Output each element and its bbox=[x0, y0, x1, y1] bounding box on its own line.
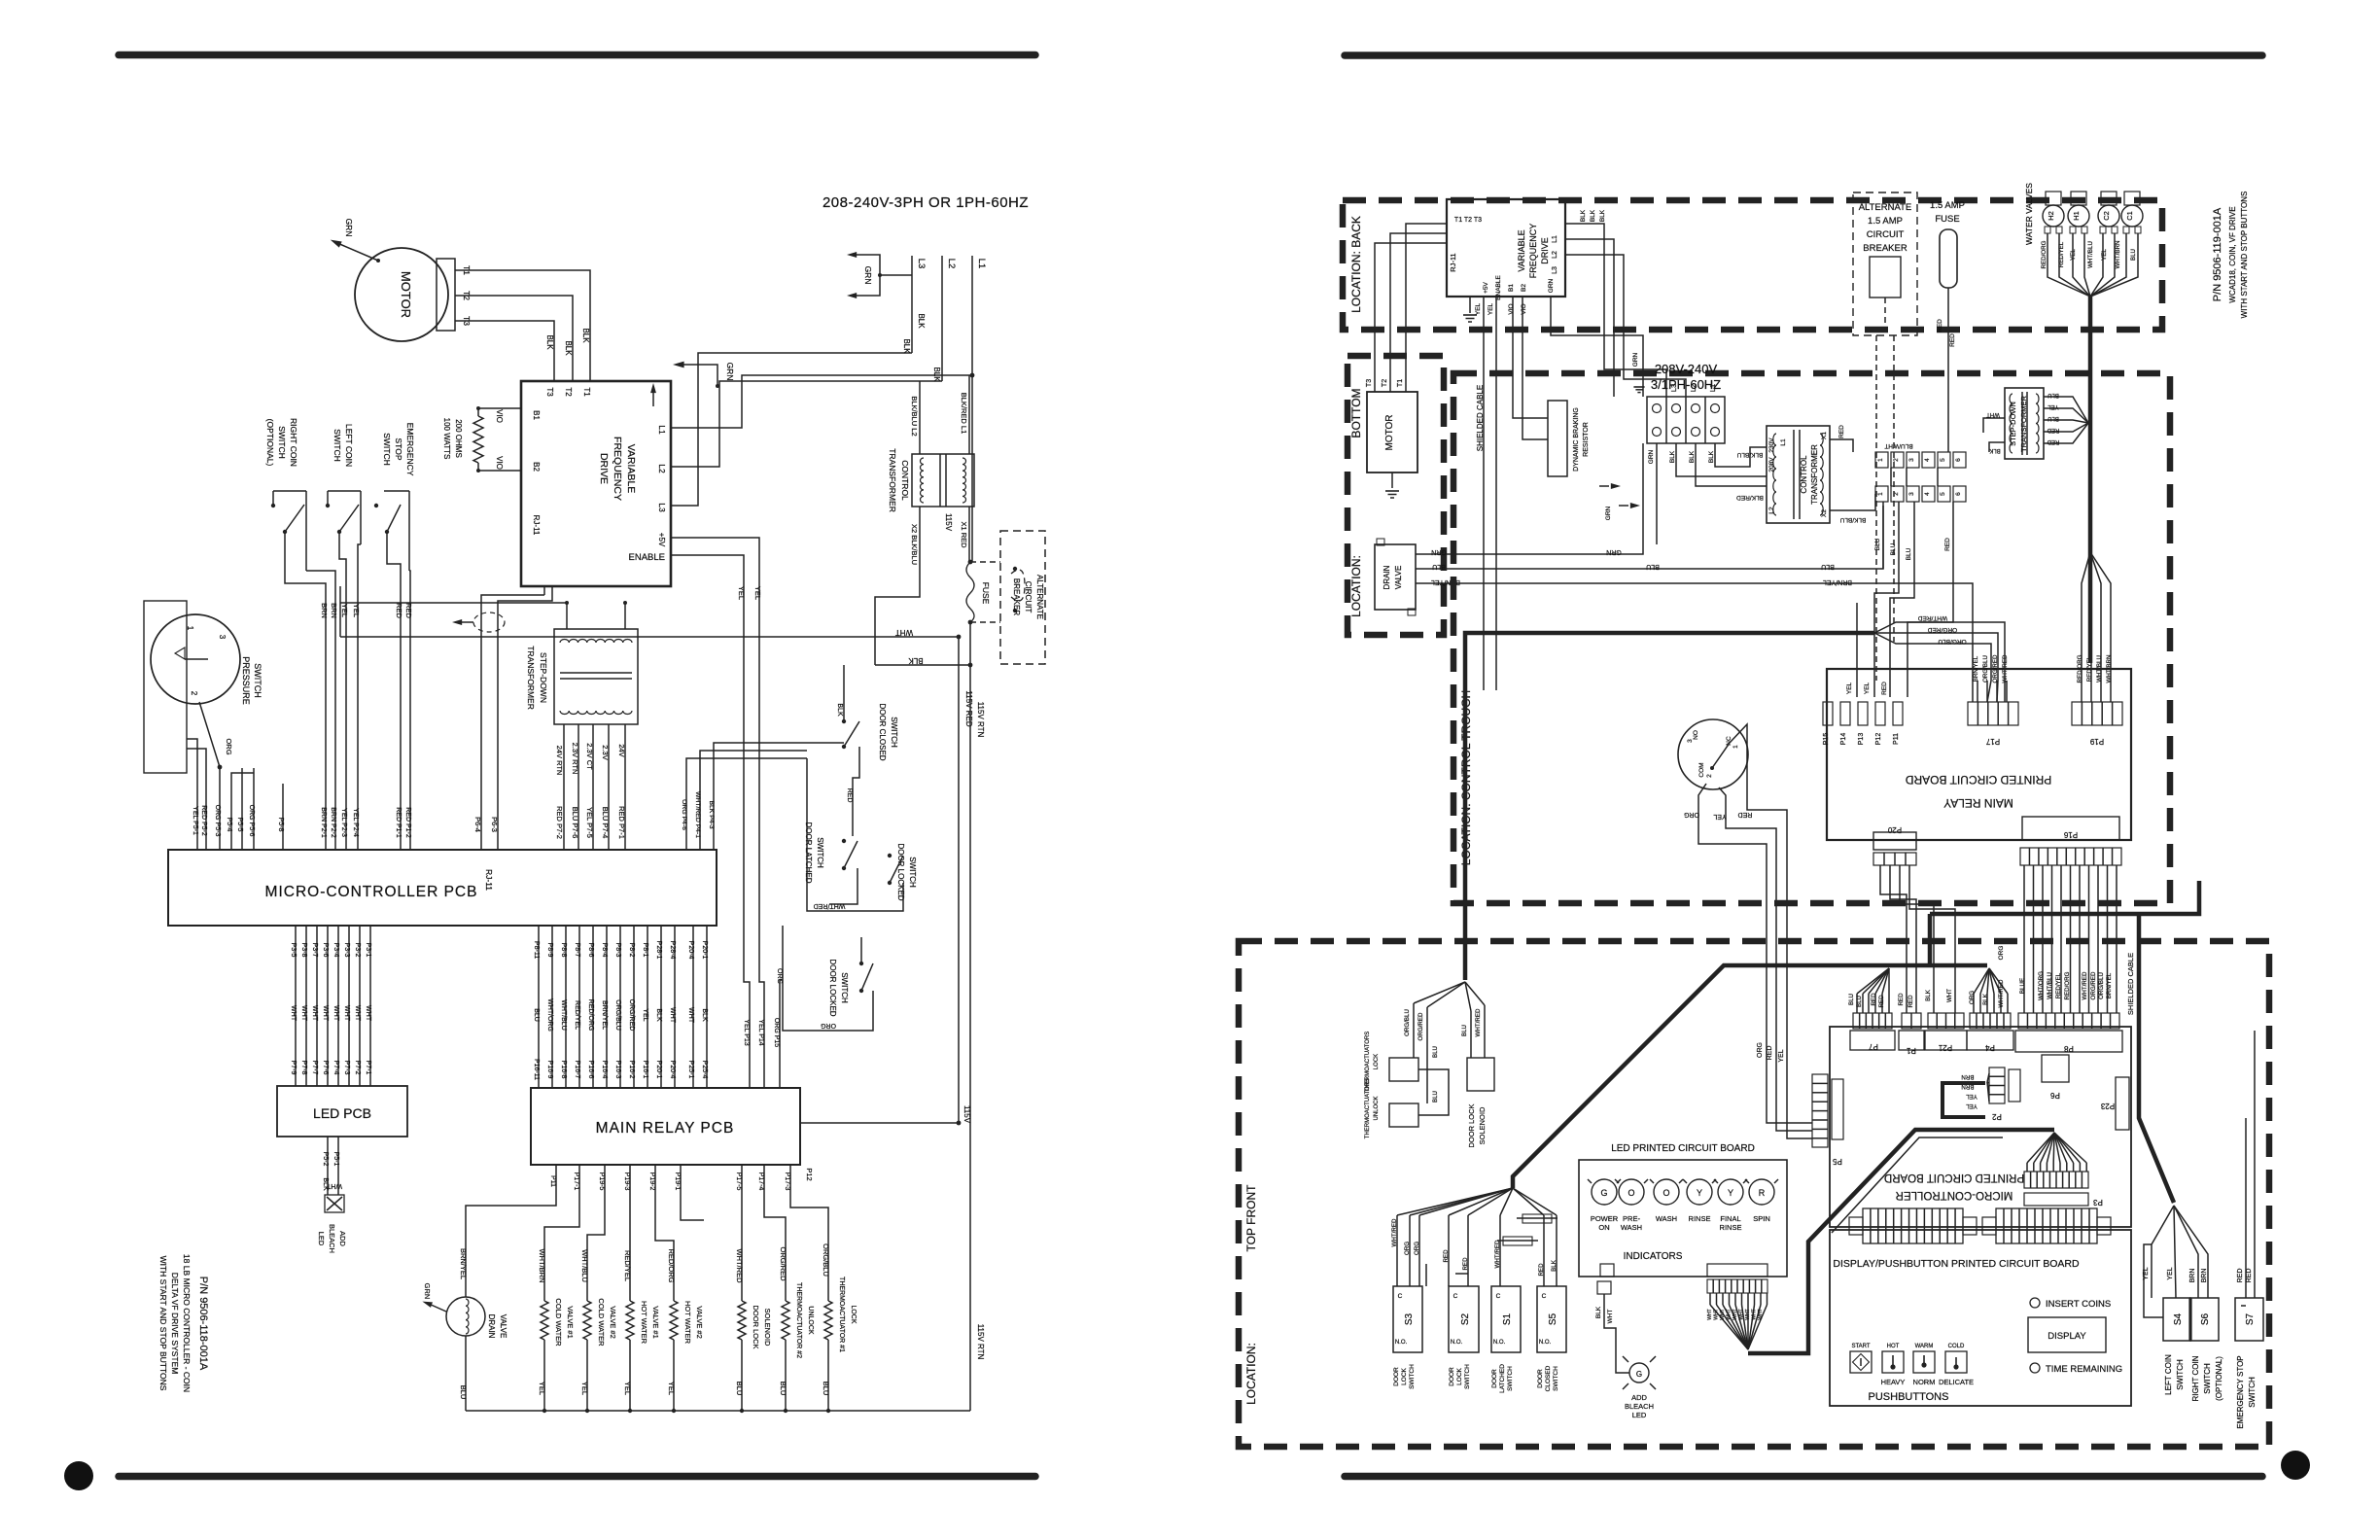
svg-text:WHT/BLU: WHT/BLU bbox=[560, 999, 567, 1031]
thick trunk below main relay bbox=[1928, 914, 1933, 965]
svg-text:BLU: BLU bbox=[779, 1382, 787, 1396]
jumper links bbox=[1522, 1214, 1552, 1223]
svg-text:BLK: BLK bbox=[1982, 993, 1989, 1005]
svg-text:YEL P7-5: YEL P7-5 bbox=[585, 807, 594, 838]
svg-text:FINAL: FINAL bbox=[1720, 1214, 1740, 1223]
svg-text:BLU: BLU bbox=[735, 1382, 744, 1396]
thermoactuators unlock bbox=[1389, 1103, 1418, 1127]
micro controller PCB right page bbox=[1830, 1027, 2131, 1227]
svg-text:1: 1 bbox=[1732, 745, 1739, 749]
svg-text:WHT/BLU: WHT/BLU bbox=[2047, 972, 2053, 999]
svg-text:MAIN RELAY: MAIN RELAY bbox=[1943, 796, 2013, 810]
svg-text:GRN: GRN bbox=[1548, 278, 1555, 293]
svg-text:N.O.: N.O. bbox=[1395, 1340, 1408, 1346]
svg-text:S5: S5 bbox=[1548, 1312, 1558, 1325]
water valve wires converge bbox=[2047, 233, 2090, 297]
drain valve wire BLU bbox=[1416, 506, 1883, 569]
svg-text:P5-4: P5-4 bbox=[226, 818, 232, 832]
svg-text:TIME REMAINING: TIME REMAINING bbox=[2046, 1364, 2122, 1375]
alternate circuit breaker right page bbox=[1853, 192, 1917, 335]
svg-text:RED: RED bbox=[2047, 427, 2059, 433]
svg-text:BLU: BLU bbox=[459, 1385, 468, 1400]
svg-text:P7-3: P7-3 bbox=[343, 1061, 350, 1075]
wire L2 to VFD bbox=[671, 381, 942, 467]
svg-text:YEL: YEL bbox=[1475, 302, 1482, 315]
svg-text:FUSE: FUSE bbox=[1935, 214, 1959, 225]
display pushbutton PCB bbox=[1830, 1230, 2131, 1406]
pressure switch wires ORG YEL RED bbox=[1698, 784, 1812, 1123]
svg-text:WHT: WHT bbox=[1752, 1309, 1758, 1319]
svg-text:L2: L2 bbox=[657, 464, 667, 473]
svg-text:200 OHMS: 200 OHMS bbox=[454, 419, 463, 458]
svg-text:CONTROL: CONTROL bbox=[1800, 455, 1808, 494]
svg-text:ENABLE: ENABLE bbox=[629, 552, 666, 563]
P3 fan bbox=[2027, 1133, 2054, 1163]
svg-text:P28-1: P28-1 bbox=[655, 941, 662, 960]
svg-text:BLK: BLK bbox=[581, 328, 590, 343]
terminal block L3 L2 L1 bbox=[1647, 397, 1725, 443]
svg-text:WHT/BLU: WHT/BLU bbox=[2087, 241, 2094, 268]
svg-text:RED: RED bbox=[2237, 1269, 2244, 1283]
svg-text:P21: P21 bbox=[1938, 1043, 1952, 1052]
svg-text:GRN: GRN bbox=[725, 363, 735, 381]
left coin switch S4 bbox=[2163, 1298, 2190, 1341]
svg-text:WITH START AND STOP BUTTONS: WITH START AND STOP BUTTONS bbox=[158, 1256, 168, 1391]
svg-text:P19-3: P19-3 bbox=[623, 1172, 630, 1191]
right coin switch S6 bbox=[2190, 1298, 2219, 1341]
svg-text:RED: RED bbox=[1881, 682, 1888, 695]
svg-text:BLU: BLU bbox=[533, 1008, 540, 1022]
svg-text:N.O.: N.O. bbox=[1451, 1340, 1463, 1346]
svg-text:MOTOR: MOTOR bbox=[399, 271, 413, 318]
svg-text:RESISTOR: RESISTOR bbox=[1583, 422, 1590, 457]
svg-text:DRAIN: DRAIN bbox=[487, 1314, 496, 1339]
drain valve wire BRN/YEL bbox=[1416, 583, 1973, 702]
svg-text:P12: P12 bbox=[1875, 733, 1882, 746]
svg-text:TRANSFORMER: TRANSFORMER bbox=[2019, 395, 2028, 452]
svg-text:SWITCH: SWITCH bbox=[816, 837, 824, 868]
svg-text:HOT: HOT bbox=[1887, 1344, 1900, 1349]
thermoactuator fan wires bbox=[1414, 982, 1465, 1003]
svg-text:P16-4: P16-4 bbox=[601, 1061, 608, 1079]
svg-text:WHT/RED: WHT/RED bbox=[1494, 1240, 1501, 1268]
svg-text:RED: RED bbox=[1949, 333, 1956, 347]
dynamic braking resistor bbox=[1548, 401, 1567, 476]
svg-text:BLU: BLU bbox=[1432, 1046, 1439, 1058]
svg-text:YEL: YEL bbox=[2047, 403, 2059, 409]
main relay PCB bbox=[531, 1088, 800, 1165]
svg-text:C: C bbox=[1542, 1293, 1547, 1300]
svg-text:230V: 230V bbox=[1768, 437, 1775, 453]
svg-text:P19-5: P19-5 bbox=[598, 1172, 605, 1191]
svg-text:WHT: WHT bbox=[669, 1007, 676, 1024]
svg-text:P16-2: P16-2 bbox=[628, 1061, 635, 1079]
svg-text:P/N 9506-118-001A: P/N 9506-118-001A bbox=[197, 1277, 209, 1371]
svg-text:1: 1 bbox=[1877, 492, 1884, 496]
thick cable branch to door switches bbox=[1513, 965, 1930, 1188]
svg-text:P7-1: P7-1 bbox=[365, 1061, 371, 1075]
svg-text:4: 4 bbox=[1924, 492, 1931, 496]
wire transformer primary L2 BLK/BLU bbox=[919, 381, 921, 454]
location top front dashed box bbox=[1239, 941, 2269, 1447]
terminal strip lower wires BLU bbox=[1882, 502, 1884, 569]
svg-text:ENABLE: ENABLE bbox=[1495, 275, 1502, 300]
svg-text:LEFT COIN: LEFT COIN bbox=[344, 424, 354, 467]
location back dashed box bbox=[1343, 200, 2162, 330]
svg-text:DISPLAY/PUSHBUTTON PRINTED C: DISPLAY/PUSHBUTTON PRINTED CIRCUIT BOARD bbox=[1833, 1258, 2080, 1270]
svg-text:RED: RED bbox=[1838, 425, 1845, 438]
svg-text:G: G bbox=[1636, 1370, 1642, 1379]
svg-text:WHT: WHT bbox=[1745, 1309, 1751, 1319]
svg-text:BREAKER: BREAKER bbox=[1863, 243, 1907, 254]
svg-text:SWITCH: SWITCH bbox=[2203, 1363, 2212, 1394]
svg-text:BRN/YEL: BRN/YEL bbox=[459, 1248, 468, 1279]
svg-text:P15: P15 bbox=[1823, 733, 1830, 746]
supply earth GRN bracket bbox=[856, 255, 880, 296]
svg-text:P8-1: P8-1 bbox=[642, 943, 648, 958]
svg-text:P20-4: P20-4 bbox=[669, 1061, 676, 1079]
svg-text:P8-3: P8-3 bbox=[614, 943, 621, 958]
svg-text:DOOR LOCKED: DOOR LOCKED bbox=[828, 959, 837, 1016]
svg-text:COLD WATER: COLD WATER bbox=[554, 1298, 563, 1347]
svg-text:C: C bbox=[1496, 1293, 1501, 1300]
svg-text:YEL P14: YEL P14 bbox=[757, 1019, 764, 1045]
svg-text:RED: RED bbox=[1462, 1257, 1469, 1271]
svg-text:P8-8: P8-8 bbox=[560, 943, 567, 958]
svg-text:RED P5-2: RED P5-2 bbox=[200, 805, 207, 836]
svg-text:24V RTN: 24V RTN bbox=[555, 746, 564, 776]
svg-text:RED: RED bbox=[1538, 1263, 1545, 1277]
svg-text:RED P1-1: RED P1-1 bbox=[395, 807, 402, 838]
svg-text:1.5 AMP: 1.5 AMP bbox=[1868, 216, 1903, 227]
svg-text:RJ-11: RJ-11 bbox=[484, 869, 494, 891]
svg-text:RIGHT COIN: RIGHT COIN bbox=[2191, 1355, 2200, 1401]
svg-text:RED/ORG: RED/ORG bbox=[667, 1248, 676, 1282]
svg-text:DOOR: DOOR bbox=[1491, 1369, 1498, 1388]
connector P6 bbox=[2042, 1055, 2069, 1082]
svg-text:YEL: YEL bbox=[1846, 682, 1853, 694]
svg-text:YEL: YEL bbox=[753, 586, 762, 600]
svg-text:BLK: BLK bbox=[932, 367, 941, 382]
svg-text:P6-4: P6-4 bbox=[473, 817, 482, 832]
svg-text:WHT: WHT bbox=[354, 1005, 361, 1022]
stepdown output wires to cable bbox=[2044, 397, 2088, 423]
svg-text:P17: P17 bbox=[1985, 737, 2000, 746]
svg-text:SOLENOID: SOLENOID bbox=[763, 1309, 772, 1347]
svg-text:ORG/BLU: ORG/BLU bbox=[614, 999, 621, 1031]
svg-text:SPIN: SPIN bbox=[1753, 1214, 1770, 1223]
svg-text:LED PRINTED CIRCUIT BOARD: LED PRINTED CIRCUIT BOARD bbox=[1611, 1143, 1755, 1154]
svg-text:O: O bbox=[1662, 1188, 1669, 1198]
wire L3 to VFD bbox=[671, 353, 912, 506]
svg-text:GRN: GRN bbox=[1606, 548, 1622, 555]
connector P1 bbox=[1902, 1013, 1921, 1029]
svg-text:RED P7-2: RED P7-2 bbox=[555, 806, 564, 839]
svg-text:1: 1 bbox=[1877, 458, 1884, 462]
door closed switch S5 bbox=[1537, 1286, 1566, 1352]
wire parallel to LED cable bbox=[1832, 1137, 2003, 1233]
svg-text:P8-11: P8-11 bbox=[533, 941, 540, 959]
svg-text:HOT WATER: HOT WATER bbox=[683, 1301, 692, 1345]
svg-text:PRESSURE: PRESSURE bbox=[241, 656, 251, 705]
svg-text:DOOR LOCK: DOOR LOCK bbox=[752, 1305, 760, 1348]
svg-text:FREQUENCY: FREQUENCY bbox=[1528, 224, 1538, 279]
svg-text:WHT: WHT bbox=[332, 1005, 339, 1022]
svg-text:YEL: YEL bbox=[580, 1382, 589, 1395]
svg-text:P19: P19 bbox=[2089, 737, 2104, 746]
svg-text:P7-9: P7-9 bbox=[290, 1061, 297, 1075]
svg-text:L3: L3 bbox=[657, 503, 667, 512]
svg-text:H2: H2 bbox=[2047, 211, 2055, 221]
svg-text:YEL P5-1: YEL P5-1 bbox=[192, 806, 198, 835]
door latched switch S1 bbox=[1491, 1286, 1521, 1352]
svg-text:P16-9: P16-9 bbox=[546, 1061, 553, 1079]
svg-text:NORM: NORM bbox=[1913, 1378, 1936, 1386]
thick cable to coin switches bbox=[2139, 914, 2174, 1203]
svg-text:ORG/BLU: ORG/BLU bbox=[2098, 972, 2105, 999]
water valve H1 bbox=[2068, 205, 2089, 227]
svg-text:P3-4: P3-4 bbox=[332, 943, 339, 958]
stepdown primary leads bbox=[566, 603, 568, 629]
emergency stop switch S7 bbox=[2235, 1298, 2263, 1341]
wire L1 to VFD bbox=[671, 375, 972, 428]
svg-text:P3-7: P3-7 bbox=[311, 943, 318, 958]
wire motor T2 to VFD bbox=[455, 296, 573, 381]
insert coins lamp bbox=[2030, 1298, 2040, 1308]
svg-text:LED: LED bbox=[1632, 1411, 1647, 1419]
svg-text:P7-2: P7-2 bbox=[354, 1061, 361, 1075]
svg-text:COLD WATER: COLD WATER bbox=[597, 1298, 606, 1347]
svg-text:SHIELDED CABLE: SHIELDED CABLE bbox=[1476, 385, 1485, 451]
svg-text:ORG/RED: ORG/RED bbox=[628, 999, 635, 1032]
P17 feed wires from trunk bbox=[1874, 622, 2005, 702]
svg-text:3: 3 bbox=[218, 635, 227, 640]
P19 fan from water valve cable bbox=[2082, 552, 2090, 681]
svg-text:WARM: WARM bbox=[1915, 1344, 1934, 1349]
main relay wire bundle P8 bbox=[538, 926, 540, 1088]
svg-text:BRN/YEL: BRN/YEL bbox=[1973, 655, 1979, 682]
svg-text:LOCATION:: LOCATION: bbox=[1244, 1343, 1258, 1405]
door circuit wires P4 bbox=[685, 778, 687, 849]
svg-text:RED: RED bbox=[1871, 993, 1877, 1006]
svg-text:P5-5: P5-5 bbox=[236, 818, 243, 832]
location control trough dashed box bbox=[1453, 373, 2170, 903]
svg-text:RED: RED bbox=[1738, 811, 1753, 818]
svg-text:YEL: YEL bbox=[623, 1382, 632, 1395]
svg-text:VIO: VIO bbox=[495, 409, 504, 423]
svg-text:BRN: BRN bbox=[1961, 1083, 1974, 1090]
svg-text:YEL: YEL bbox=[1864, 682, 1871, 694]
svg-text:LOCK: LOCK bbox=[1456, 1367, 1463, 1384]
svg-text:P17-4: P17-4 bbox=[757, 1172, 764, 1191]
svg-text:WASH: WASH bbox=[1621, 1223, 1642, 1232]
VFD BLK output wires bbox=[1565, 224, 1604, 321]
svg-text:BLU: BLU bbox=[1906, 547, 1912, 560]
P19 connector bbox=[2072, 702, 2122, 725]
svg-text:BLK: BLK bbox=[836, 703, 843, 717]
svg-text:3: 3 bbox=[1687, 739, 1694, 743]
svg-text:100 WATTS: 100 WATTS bbox=[442, 418, 451, 460]
svg-text:SWITCH: SWITCH bbox=[1409, 1364, 1416, 1389]
svg-text:2: 2 bbox=[1706, 774, 1713, 778]
connector P7 bbox=[1853, 1013, 1892, 1029]
svg-text:RJ-11: RJ-11 bbox=[1449, 253, 1457, 271]
svg-text:BLK: BLK bbox=[1551, 1259, 1557, 1272]
svg-text:B2: B2 bbox=[532, 462, 541, 472]
svg-text:2.3V CT: 2.3V CT bbox=[585, 743, 594, 770]
wire bundle P5 from pressure switch bbox=[196, 778, 198, 849]
svg-text:DOOR: DOOR bbox=[1449, 1367, 1455, 1386]
svg-text:WHT: WHT bbox=[1758, 1309, 1764, 1319]
svg-text:T1: T1 bbox=[582, 387, 591, 397]
svg-text:GRN: GRN bbox=[863, 266, 873, 285]
svg-text:2.3V RTN: 2.3V RTN bbox=[571, 743, 579, 775]
svg-text:VALVE: VALVE bbox=[499, 1314, 507, 1339]
svg-text:ORG: ORG bbox=[1998, 946, 2005, 961]
svg-text:FUSE: FUSE bbox=[981, 582, 991, 605]
svg-text:RED: RED bbox=[1878, 995, 1885, 1008]
svg-text:VIO: VIO bbox=[495, 456, 504, 470]
svg-text:T3: T3 bbox=[545, 387, 554, 397]
svg-text:BLU: BLU bbox=[1821, 563, 1835, 570]
neutral bus bbox=[466, 1410, 970, 1412]
svg-text:INSERT COINS: INSERT COINS bbox=[2046, 1299, 2111, 1310]
svg-text:WHT: WHT bbox=[1607, 1310, 1614, 1324]
hot water valve 2 bbox=[670, 1301, 678, 1340]
svg-text:RINSE: RINSE bbox=[1689, 1214, 1711, 1223]
svg-text:LED PCB: LED PCB bbox=[313, 1105, 371, 1121]
svg-text:P8-2: P8-2 bbox=[628, 943, 635, 958]
svg-text:ORG/BLU: ORG/BLU bbox=[822, 1243, 830, 1277]
variable frequency drive U1 bbox=[521, 381, 671, 586]
svg-text:+5V: +5V bbox=[1483, 281, 1489, 293]
svg-text:P16-3: P16-3 bbox=[614, 1061, 621, 1079]
svg-text:EMERGENCY: EMERGENCY bbox=[405, 423, 415, 476]
svg-text:SWITCH: SWITCH bbox=[890, 717, 898, 748]
terminal strip row 2 bbox=[1875, 486, 1888, 502]
svg-text:VALVE: VALVE bbox=[1394, 566, 1403, 590]
svg-text:DRIVE: DRIVE bbox=[598, 453, 610, 484]
svg-text:STEP-DOWN: STEP-DOWN bbox=[2009, 402, 2017, 446]
svg-text:ORG/BLU: ORG/BLU bbox=[1938, 638, 1967, 645]
svg-text:YEL: YEL bbox=[538, 1382, 546, 1395]
wire motor T3 to VFD bbox=[455, 321, 554, 381]
svg-text:WHT: WHT bbox=[687, 1007, 694, 1024]
svg-text:RED: RED bbox=[2246, 1269, 2253, 1283]
water valve C2 bbox=[2098, 205, 2119, 227]
svg-text:ALTERNATE: ALTERNATE bbox=[1035, 575, 1044, 619]
svg-text:208V-240V: 208V-240V bbox=[1655, 362, 1718, 376]
left page bullet bbox=[64, 1461, 93, 1490]
P2 fan bbox=[1987, 1073, 1989, 1082]
svg-text:P8: P8 bbox=[2064, 1044, 2074, 1053]
svg-text:GRN: GRN bbox=[1605, 506, 1612, 520]
svg-text:BLK: BLK bbox=[1669, 450, 1676, 463]
motor M1 bbox=[355, 248, 448, 341]
svg-text:YEL: YEL bbox=[340, 604, 349, 617]
svg-text:LOCK: LOCK bbox=[850, 1305, 857, 1323]
svg-text:P7-6: P7-6 bbox=[322, 1061, 329, 1075]
braking resistor R1 200 OHMS 100 WATTS bbox=[477, 408, 479, 416]
svg-text:P19-1: P19-1 bbox=[674, 1172, 681, 1191]
svg-text:FREQUENCY: FREQUENCY bbox=[612, 437, 623, 501]
svg-text:P1: P1 bbox=[1907, 1046, 1916, 1055]
svg-text:BLU/WHT: BLU/WHT bbox=[1884, 442, 1912, 449]
svg-text:EMERGENCY STOP: EMERGENCY STOP bbox=[2236, 1355, 2245, 1428]
svg-text:COM: COM bbox=[1698, 762, 1705, 777]
svg-text:P25-4: P25-4 bbox=[701, 1061, 708, 1079]
svg-text:P3-6: P3-6 bbox=[322, 943, 329, 958]
svg-text:T2: T2 bbox=[564, 387, 573, 397]
svg-text:WHT: WHT bbox=[326, 1182, 342, 1189]
svg-text:208V: 208V bbox=[1768, 457, 1775, 472]
svg-text:WHT: WHT bbox=[1707, 1309, 1713, 1319]
motor ground wire GRN bbox=[337, 243, 378, 261]
motor M2 wires T1 T2 T3 bbox=[1406, 224, 1447, 392]
svg-text:DOOR CLOSED: DOOR CLOSED bbox=[878, 703, 887, 760]
svg-text:BLK: BLK bbox=[1708, 450, 1715, 463]
svg-text:P4: P4 bbox=[1985, 1043, 1995, 1052]
control transformer right page bbox=[1767, 426, 1830, 523]
svg-text:SWITCH: SWITCH bbox=[2176, 1359, 2185, 1390]
water valve pin squares bbox=[2045, 227, 2050, 233]
LED PCB bbox=[277, 1086, 407, 1137]
svg-text:P17-1: P17-1 bbox=[573, 1172, 579, 1191]
svg-text:BLUE: BLUE bbox=[2019, 978, 2026, 994]
svg-text:BLU P7-4: BLU P7-4 bbox=[601, 807, 610, 839]
svg-text:P3-5: P3-5 bbox=[290, 943, 297, 958]
water valve C1 bbox=[2121, 205, 2143, 227]
wire main relay to 115V bbox=[800, 1122, 959, 1124]
svg-text:WHT/RED: WHT/RED bbox=[1918, 614, 1948, 621]
svg-text:P16-1: P16-1 bbox=[642, 1061, 648, 1079]
svg-text:YEL: YEL bbox=[1713, 813, 1726, 820]
svg-text:UNLOCK: UNLOCK bbox=[1374, 1096, 1380, 1120]
svg-text:T2: T2 bbox=[1382, 379, 1388, 387]
svg-text:BRN P2-1: BRN P2-1 bbox=[320, 807, 327, 838]
svg-text:ORG: ORG bbox=[1404, 1242, 1411, 1255]
svg-text:18 LB MICRO CONTROLLER - COIN: 18 LB MICRO CONTROLLER - COIN bbox=[182, 1254, 192, 1392]
YEL wires from VFD +5V ENABLE bbox=[671, 538, 764, 1088]
svg-text:BLU: BLU bbox=[1848, 994, 1855, 1005]
svg-text:YEL: YEL bbox=[352, 604, 361, 617]
svg-text:BRN: BRN bbox=[1961, 1073, 1974, 1080]
add bleach LED bbox=[325, 1195, 344, 1212]
svg-text:Y: Y bbox=[1697, 1188, 1702, 1198]
svg-text:P17-5: P17-5 bbox=[735, 1172, 742, 1191]
svg-text:WHT: WHT bbox=[1720, 1309, 1726, 1319]
svg-text:YEL: YEL bbox=[2101, 249, 2108, 261]
svg-text:5: 5 bbox=[1940, 458, 1946, 462]
svg-text:RED P1-2: RED P1-2 bbox=[404, 807, 411, 838]
svg-text:MAIN RELAY PCB: MAIN RELAY PCB bbox=[596, 1120, 735, 1137]
svg-text:T1: T1 bbox=[1397, 379, 1404, 387]
motor M2 bbox=[1367, 392, 1417, 472]
wire P5-8 bbox=[282, 784, 284, 849]
wires P13 P14 P15 to main relay bbox=[779, 980, 781, 1088]
svg-text:ALTERNATE: ALTERNATE bbox=[1859, 202, 1912, 213]
VFD U2 right page bbox=[1447, 199, 1565, 297]
right page bottom rule bbox=[1345, 1473, 2262, 1481]
svg-text:P11: P11 bbox=[1893, 733, 1900, 745]
fan to P4 bbox=[1930, 963, 1987, 968]
thermoactuator 2 unlock bbox=[782, 1301, 789, 1340]
svg-text:P20-1: P20-1 bbox=[655, 1061, 662, 1079]
line 115V RTN bbox=[969, 622, 971, 1411]
svg-text:3: 3 bbox=[1908, 458, 1915, 462]
svg-text:L1: L1 bbox=[1552, 235, 1558, 243]
svg-text:T3: T3 bbox=[1366, 379, 1373, 387]
